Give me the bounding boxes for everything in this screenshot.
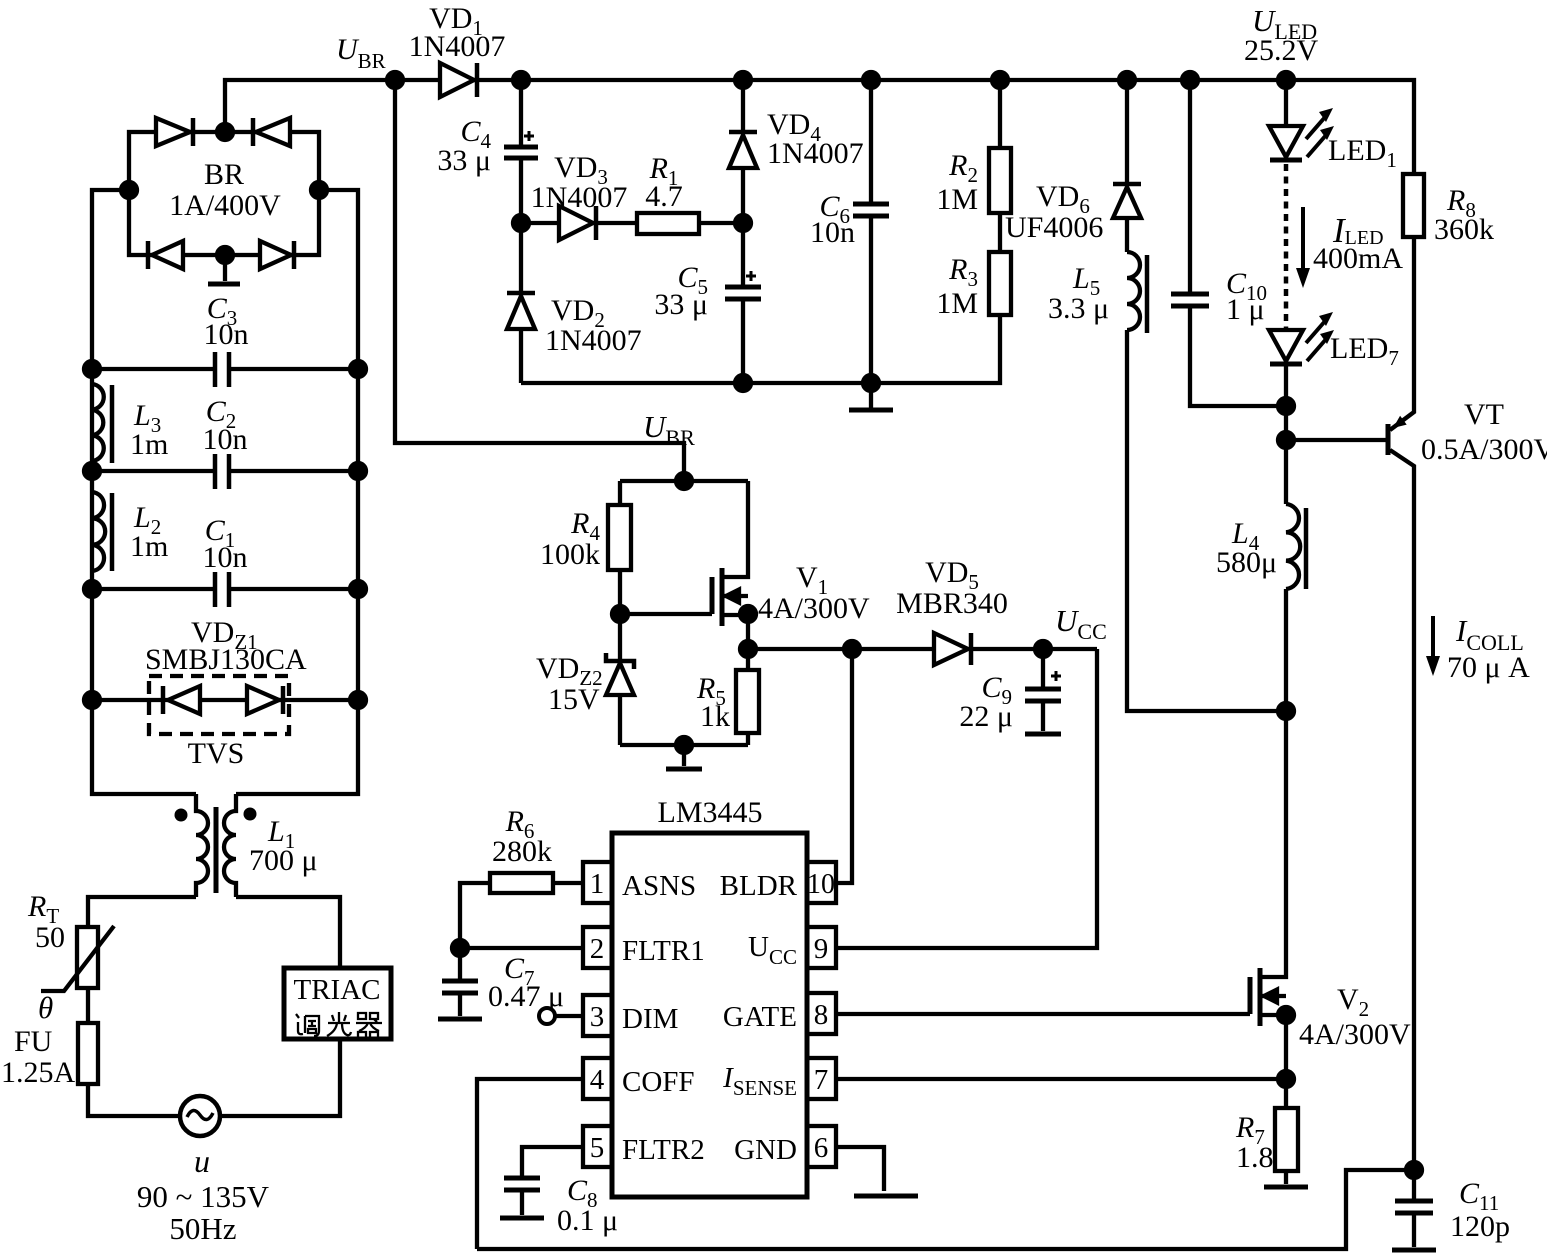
svg-text:8: 8	[814, 999, 829, 1031]
svg-text:3: 3	[590, 1001, 605, 1033]
svg-text:GATE: GATE	[723, 1001, 797, 1033]
resistor R2 1M	[936, 80, 1011, 252]
capacitor C3	[92, 292, 358, 387]
svg-text:90 ~ 135V: 90 ~ 135V	[137, 1179, 270, 1214]
wire V1 source to VD5	[748, 647, 934, 651]
transformer phasing dot left	[175, 809, 188, 822]
wire bottom rail	[477, 1170, 1414, 1249]
resistor R6 280k	[460, 805, 583, 948]
diode VD4	[729, 80, 864, 223]
pin 8	[807, 993, 836, 1034]
capacitor C7 0.47u	[438, 948, 564, 1019]
wire GND pin 6 to ground	[836, 1147, 884, 1191]
capacitor C4	[437, 80, 538, 223]
svg-text:LED1: LED1	[1328, 134, 1397, 172]
svg-text:1m: 1m	[130, 428, 168, 461]
ground below C6	[869, 383, 873, 408]
node C7 top	[452, 940, 468, 956]
node C1 right	[350, 581, 366, 597]
transformer L1 secondary winding	[224, 794, 236, 897]
svg-text:1A/400V: 1A/400V	[169, 189, 281, 222]
diode VD5 MBR340	[896, 556, 1097, 665]
svg-text:COFF: COFF	[622, 1066, 695, 1098]
svg-text:360k: 360k	[1434, 213, 1494, 246]
svg-text:LED7: LED7	[1330, 332, 1399, 370]
svg-text:ISENSE: ISENSE	[722, 1062, 797, 1100]
diode VD1	[409, 2, 506, 97]
node V1 source / R5 top	[740, 641, 756, 657]
pin 6	[807, 1126, 836, 1167]
svg-text:2: 2	[590, 933, 605, 965]
svg-text:VT: VT	[1464, 398, 1504, 431]
svg-text:9: 9	[814, 933, 829, 965]
svg-text:400mA: 400mA	[1313, 242, 1403, 275]
svg-text:5: 5	[590, 1132, 605, 1164]
capacitor C6	[810, 80, 889, 383]
wire ISENSE pin 7 to R7	[836, 1077, 1286, 1081]
node LED string top	[1278, 72, 1294, 88]
node TVS left	[84, 692, 100, 708]
node C11 top	[1406, 1162, 1422, 1178]
svg-text:580μ: 580μ	[1216, 546, 1277, 579]
svg-text:10n: 10n	[204, 318, 249, 351]
TVS diode VDZ1 SMBJ130CA	[92, 616, 358, 770]
svg-text:LM3445: LM3445	[658, 796, 763, 829]
inductor L5 3.3u	[1048, 252, 1147, 333]
wire transformer right to TRIAC	[236, 897, 340, 968]
svg-text:1M: 1M	[936, 183, 978, 216]
wire VDZ2/R5 bottom	[620, 743, 748, 747]
svg-text:280k: 280k	[492, 835, 552, 868]
MOSFET V1 4A/300V	[712, 481, 870, 649]
wire: right rail of EMI filter	[236, 190, 358, 794]
pin 3	[583, 995, 612, 1036]
capacitor C2	[92, 395, 358, 489]
svg-text:V2: V2	[1337, 983, 1369, 1021]
svg-text:u: u	[194, 1143, 210, 1179]
svg-text:R3: R3	[948, 253, 978, 291]
svg-text:4: 4	[590, 1064, 605, 1096]
svg-text:UCC: UCC	[748, 931, 797, 969]
node C2 right	[350, 463, 366, 479]
transformer L1 primary winding	[196, 794, 208, 897]
svg-text:UBR: UBR	[643, 409, 695, 450]
hand-drawn glyphs 调光器	[296, 1012, 382, 1038]
resistor R4 100k	[540, 481, 631, 614]
node BR top output	[217, 124, 233, 140]
svg-text:15V: 15V	[548, 683, 600, 716]
svg-text:ASNS: ASNS	[622, 870, 696, 902]
wire: left rail of EMI filter	[92, 190, 196, 794]
svg-text:SMBJ130CA: SMBJ130CA	[145, 643, 307, 676]
wire split to R4 and V1	[620, 479, 748, 483]
svg-text:10n: 10n	[203, 541, 248, 574]
svg-text:10n: 10n	[810, 216, 855, 249]
ground stub below BR	[223, 255, 227, 281]
wire: bottom return of charge pump	[521, 381, 871, 385]
node R4 bottom / gate	[612, 606, 628, 622]
svg-text:BR: BR	[204, 158, 244, 191]
node bottom middle	[676, 737, 692, 753]
capacitor C11 120p	[1392, 1170, 1510, 1250]
node VD6 top	[1119, 72, 1135, 88]
svg-text:0.1 μ: 0.1 μ	[557, 1204, 618, 1237]
DIM input terminal	[539, 1008, 555, 1024]
wire: transformer to RT	[88, 897, 196, 927]
svg-text:120p: 120p	[1450, 1210, 1510, 1243]
diode VD3	[521, 151, 637, 240]
op-amp U1 LM3445 controller IC	[612, 796, 807, 1197]
node C4 bottom	[513, 215, 529, 231]
wire dashed LED string	[1284, 164, 1289, 330]
wire: UBR feed to start-up circuit	[395, 80, 684, 481]
inductor L4 580u	[1216, 504, 1306, 589]
inductor L3	[92, 384, 168, 463]
svg-text:1N4007: 1N4007	[545, 324, 642, 357]
svg-text:6: 6	[814, 1132, 829, 1164]
svg-text:4A/300V: 4A/300V	[758, 592, 870, 625]
node C1 left	[84, 581, 100, 597]
node R1 right / VD4 bottom	[735, 215, 751, 231]
svg-text:FLTR1: FLTR1	[622, 935, 705, 967]
wire FLTR1	[460, 946, 583, 950]
pin 1	[583, 862, 612, 903]
node UCC	[1035, 641, 1051, 657]
pin 9	[807, 927, 836, 968]
node C3 left	[84, 361, 100, 377]
diode VD6 UF4006	[1005, 80, 1141, 252]
node C3 right	[350, 361, 366, 377]
svg-text:4A/300V: 4A/300V	[1299, 1018, 1411, 1051]
resistor R8 360k	[1403, 174, 1494, 246]
svg-text:1 μ: 1 μ	[1226, 293, 1265, 326]
arrow I_COLL 70uA	[1426, 613, 1530, 684]
svg-text:UBR: UBR	[336, 33, 386, 73]
node C6 bottom	[863, 375, 879, 391]
transformer phasing dot right	[244, 808, 257, 821]
bridge rectifier BR 1A/400V	[129, 118, 319, 269]
pin 5	[583, 1126, 612, 1167]
svg-text:FLTR2: FLTR2	[622, 1134, 705, 1166]
node C2 left	[84, 463, 100, 479]
node BR right input	[311, 182, 327, 198]
pin 10	[807, 862, 836, 903]
diode VD2	[507, 223, 642, 383]
svg-text:UCC: UCC	[1055, 603, 1107, 644]
node C5 bottom	[735, 375, 751, 391]
thermistor RT 50	[27, 890, 114, 991]
wire COFF down to bottom rail	[477, 1079, 583, 1249]
wire L4 to V2 drain	[1284, 589, 1288, 711]
wire: top rail from bridge output to R8	[225, 80, 1414, 174]
TRIAC dimmer box	[284, 968, 391, 1039]
svg-text:33 μ: 33 μ	[654, 288, 708, 321]
svg-text:50: 50	[35, 921, 65, 954]
svg-text:0.5A/300V: 0.5A/300V	[1421, 433, 1547, 466]
svg-text:TVS: TVS	[188, 737, 245, 770]
node C6 top	[863, 72, 879, 88]
node BR left input	[121, 182, 137, 198]
svg-text:33 μ: 33 μ	[437, 144, 491, 177]
transistor VT 0.5A/300V	[1286, 237, 1547, 1170]
node after VD1	[513, 72, 529, 88]
node ISENSE junction	[1278, 1071, 1294, 1087]
MOSFET V2 4A/300V	[1250, 711, 1411, 1079]
svg-text:1M: 1M	[936, 287, 978, 320]
AC source u	[137, 1096, 270, 1246]
svg-text:1N4007: 1N4007	[409, 30, 506, 63]
wire source to TRIAC	[220, 1039, 340, 1116]
inductor L2	[92, 492, 168, 571]
transformer L1 core	[214, 807, 219, 893]
svg-text:25.2V: 25.2V	[1244, 34, 1319, 67]
node C10 top	[1182, 72, 1198, 88]
svg-text:θ: θ	[38, 990, 53, 1025]
node V1 source	[740, 606, 756, 622]
svg-text:MBR340: MBR340	[896, 587, 1008, 620]
LED1	[1269, 80, 1397, 172]
svg-text:DIM: DIM	[622, 1003, 678, 1035]
capacitor C9 22u	[959, 649, 1061, 734]
svg-text:1N4007: 1N4007	[531, 181, 628, 214]
zener diode VDZ2 15V	[536, 614, 634, 745]
resistor R5 1k	[696, 649, 759, 745]
wire LED7 to L4	[1284, 364, 1288, 504]
svg-text:3.3 μ: 3.3 μ	[1048, 292, 1109, 325]
capacitor C5	[654, 223, 761, 383]
svg-text:1: 1	[590, 868, 605, 900]
capacitor C1	[92, 514, 358, 607]
LED7	[1269, 312, 1399, 370]
node UBR split	[676, 473, 692, 489]
svg-text:BLDR: BLDR	[720, 870, 798, 902]
pin 2	[583, 927, 612, 968]
wire GATE pin 8 to V2	[836, 1012, 1250, 1016]
arrow I_LED 400mA	[1296, 207, 1403, 288]
capacitor C8 0.1u	[500, 1147, 618, 1237]
resistor R7 1.8	[1235, 1079, 1308, 1187]
resistor R1	[637, 152, 743, 234]
svg-text:100k: 100k	[540, 538, 600, 571]
node VD4 top	[735, 72, 751, 88]
node BLDR tap	[844, 641, 860, 657]
node R2 top	[992, 72, 1008, 88]
svg-text:TRIAC: TRIAC	[294, 974, 381, 1006]
svg-text:FU: FU	[14, 1025, 53, 1058]
node UBR on top rail	[387, 72, 403, 88]
svg-text:UF4006: UF4006	[1005, 211, 1103, 244]
node TVS right	[350, 692, 366, 708]
svg-text:GND: GND	[734, 1134, 797, 1166]
wire L5 bottom to L4 bottom node	[1127, 330, 1286, 711]
svg-text:1.25A: 1.25A	[1, 1056, 76, 1089]
svg-text:1m: 1m	[130, 530, 168, 563]
svg-text:ICOLL: ICOLL	[1455, 613, 1524, 655]
pin 4	[583, 1058, 612, 1099]
node C10 junction	[1278, 398, 1294, 414]
node BR bottom output	[217, 247, 233, 263]
svg-text:22 μ: 22 μ	[959, 700, 1013, 733]
ground below VDZ2/R5	[682, 745, 686, 766]
svg-text:700 μ: 700 μ	[249, 844, 318, 877]
wire FU to source	[88, 1084, 180, 1116]
svg-text:1k: 1k	[700, 700, 730, 733]
wire BLDR tap to pin 10	[836, 649, 852, 883]
node VT base junction	[1278, 432, 1294, 448]
pin 7	[807, 1058, 836, 1099]
svg-text:4.7: 4.7	[645, 180, 683, 213]
svg-text:R2: R2	[948, 149, 978, 187]
wire gate V1	[620, 612, 712, 616]
fuse FU 1.25A	[1, 1023, 98, 1089]
svg-text:7: 7	[814, 1064, 829, 1096]
node V2 source	[1278, 1007, 1294, 1023]
wire UCC to pin 9	[836, 649, 1097, 948]
node L4/L5 junction	[1278, 703, 1294, 719]
svg-text:10n: 10n	[203, 423, 248, 456]
svg-text:1.8: 1.8	[1236, 1141, 1274, 1174]
svg-text:10: 10	[807, 869, 835, 900]
capacitor C10 1u	[1171, 80, 1286, 406]
svg-text:70 μ A: 70 μ A	[1447, 651, 1530, 684]
resistor R3 1M	[871, 252, 1011, 383]
wire RT to FU	[86, 988, 90, 1023]
svg-text:50Hz: 50Hz	[169, 1211, 236, 1246]
svg-text:1N4007: 1N4007	[767, 137, 864, 170]
